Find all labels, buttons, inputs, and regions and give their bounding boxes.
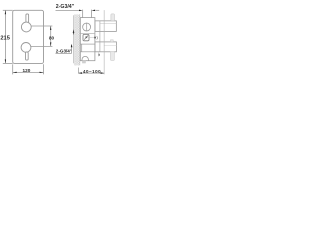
bottom knob lever stem [26,52,29,60]
svg-text:120: 120 [23,68,31,73]
bottom nipple [110,52,114,61]
top nipple [111,14,115,21]
dim 40-100 line [79,72,105,74]
dim 40-100 extension left [78,68,80,74]
body interior vline [81,44,83,52]
plate leader arrow mark [73,29,75,33]
body interior line 1 [80,43,95,45]
dim 215 arrow top [5,10,6,14]
top pipe [95,21,116,32]
bottom pipe top stub [111,40,114,42]
diverter detail arc [96,36,99,39]
bottom pipe [95,42,117,52]
label 2-G3/4 top leader left arrow [79,10,83,12]
dim 120 line [13,71,44,73]
dim 215 line [4,10,6,63]
trim plate side profile [72,15,74,63]
top outlet stub right edge [90,10,92,21]
svg-text:40~100: 40~100 [83,69,101,74]
dim 215 extension line bottom [3,62,13,64]
dim 120 arrow right [40,72,44,73]
bottom pipe inner line [104,44,117,46]
top knob lever stem [26,14,29,23]
dim 40-100 arrow right [101,72,105,74]
cartridge square bottom [83,34,89,40]
dim 120 extension line left [12,64,14,74]
svg-text:215: 215 [0,35,10,41]
cartridge square diagonal [84,35,88,39]
body interior line top chamber [80,33,95,35]
wall back line [79,14,81,65]
dim 80 extension line bottom [31,45,52,47]
dim 215 arrow bottom [5,59,6,63]
plate leader tail [73,33,75,34]
body interior line 2 [80,51,95,53]
top channel line [91,20,94,22]
wall hatch section [75,14,80,65]
bottom outlet dome [82,56,88,60]
svg-text:80: 80 [49,35,55,40]
svg-text:2-G3/4": 2-G3/4" [56,4,75,10]
wall surface line [74,14,76,65]
label 2-G3/4 top leader right arrow [92,10,96,12]
dim 80 extension line top [31,25,52,27]
top pipe inner line [100,23,116,25]
bleed screw line [97,52,99,56]
cartridge circle top [83,23,91,31]
dim 40-100 arrow left [79,72,83,74]
dim 120 arrow left [13,72,17,73]
label 2-G3/4 mid leader [71,45,73,53]
dim 215 extension line top [3,9,13,11]
label 2-G3/4 mid leader arrow [71,44,73,48]
cartridge circle top spindle line [86,23,88,31]
bottom knob circle [21,43,31,53]
front plate [13,10,44,63]
bleed screw below pipe [98,54,100,56]
dim 80 arrow bottom [50,42,51,46]
label 2-G3/4 top leader left [56,9,80,11]
dim 120 extension line right [43,64,45,74]
diverter link line [89,37,94,39]
dim 80 line [50,26,52,46]
svg-text:2-G3/4": 2-G3/4" [56,49,72,54]
bracket line [99,21,101,52]
label 2-G3/4 top leader right line [96,9,100,11]
label 2-G3/4 mid underline [56,52,72,54]
diverter detail square [94,37,96,39]
top outlet stub left edge [82,10,84,18]
dim 80 arrow top [50,26,51,30]
extension line 40-100 right [103,10,105,74]
bottom outlet stub [82,61,86,64]
cartridge square center dot [86,36,88,38]
top knob circle [21,22,31,32]
valve body [80,18,95,61]
